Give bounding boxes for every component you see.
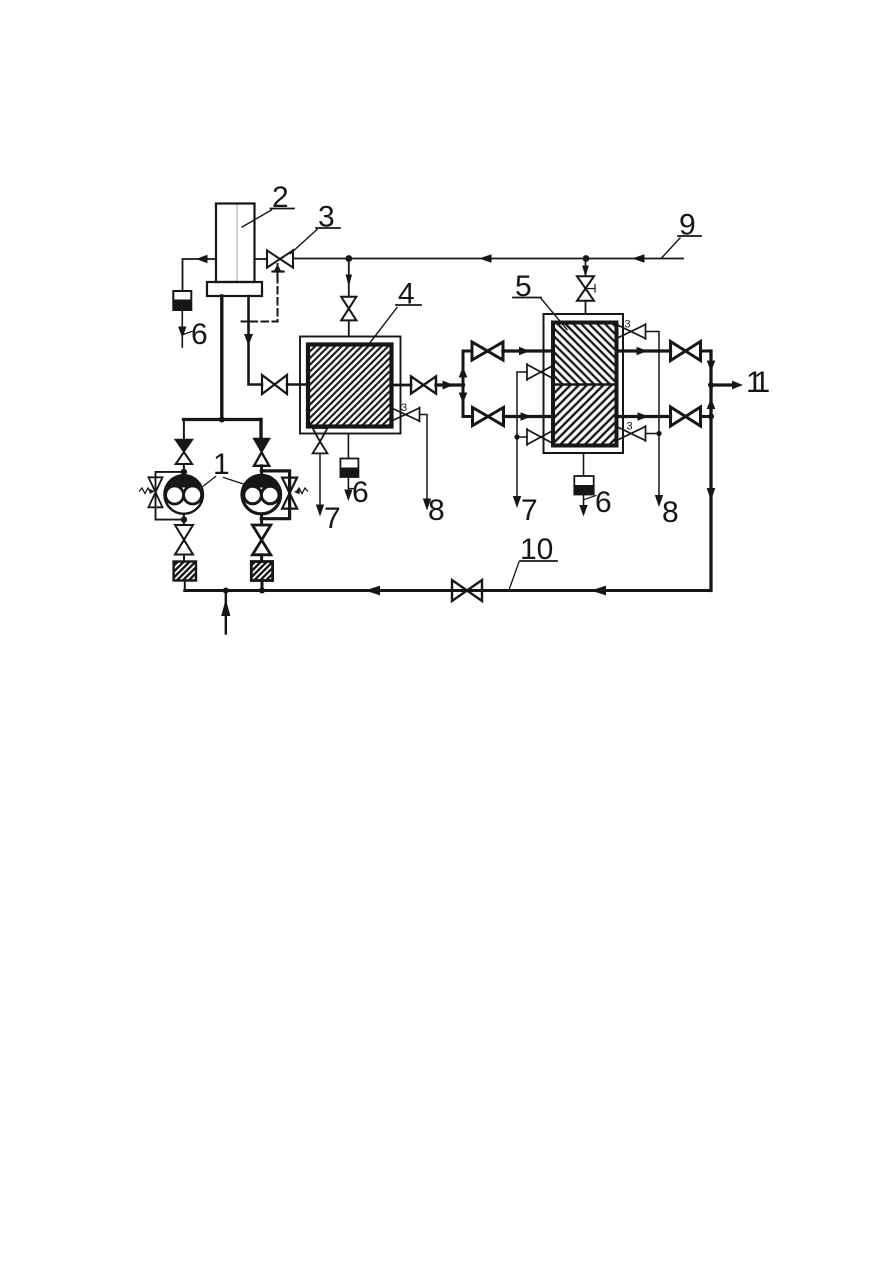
svg-text:6: 6 — [352, 476, 369, 509]
svg-text:6: 6 — [595, 486, 612, 519]
svg-text:5: 5 — [515, 270, 532, 303]
svg-text:6: 6 — [191, 318, 208, 351]
svg-text:7: 7 — [521, 494, 538, 527]
svg-text:3: 3 — [627, 421, 633, 433]
svg-text:8: 8 — [662, 496, 679, 529]
svg-text:3: 3 — [625, 319, 631, 331]
svg-text:3: 3 — [318, 201, 335, 234]
svg-text:8: 8 — [428, 494, 445, 527]
svg-text:4: 4 — [398, 278, 415, 311]
svg-text:9: 9 — [679, 209, 696, 242]
svg-text:7: 7 — [324, 502, 341, 535]
svg-text:2: 2 — [272, 181, 289, 214]
svg-text:1: 1 — [213, 448, 230, 481]
svg-text:10: 10 — [520, 533, 553, 566]
svg-text:3: 3 — [401, 402, 407, 414]
